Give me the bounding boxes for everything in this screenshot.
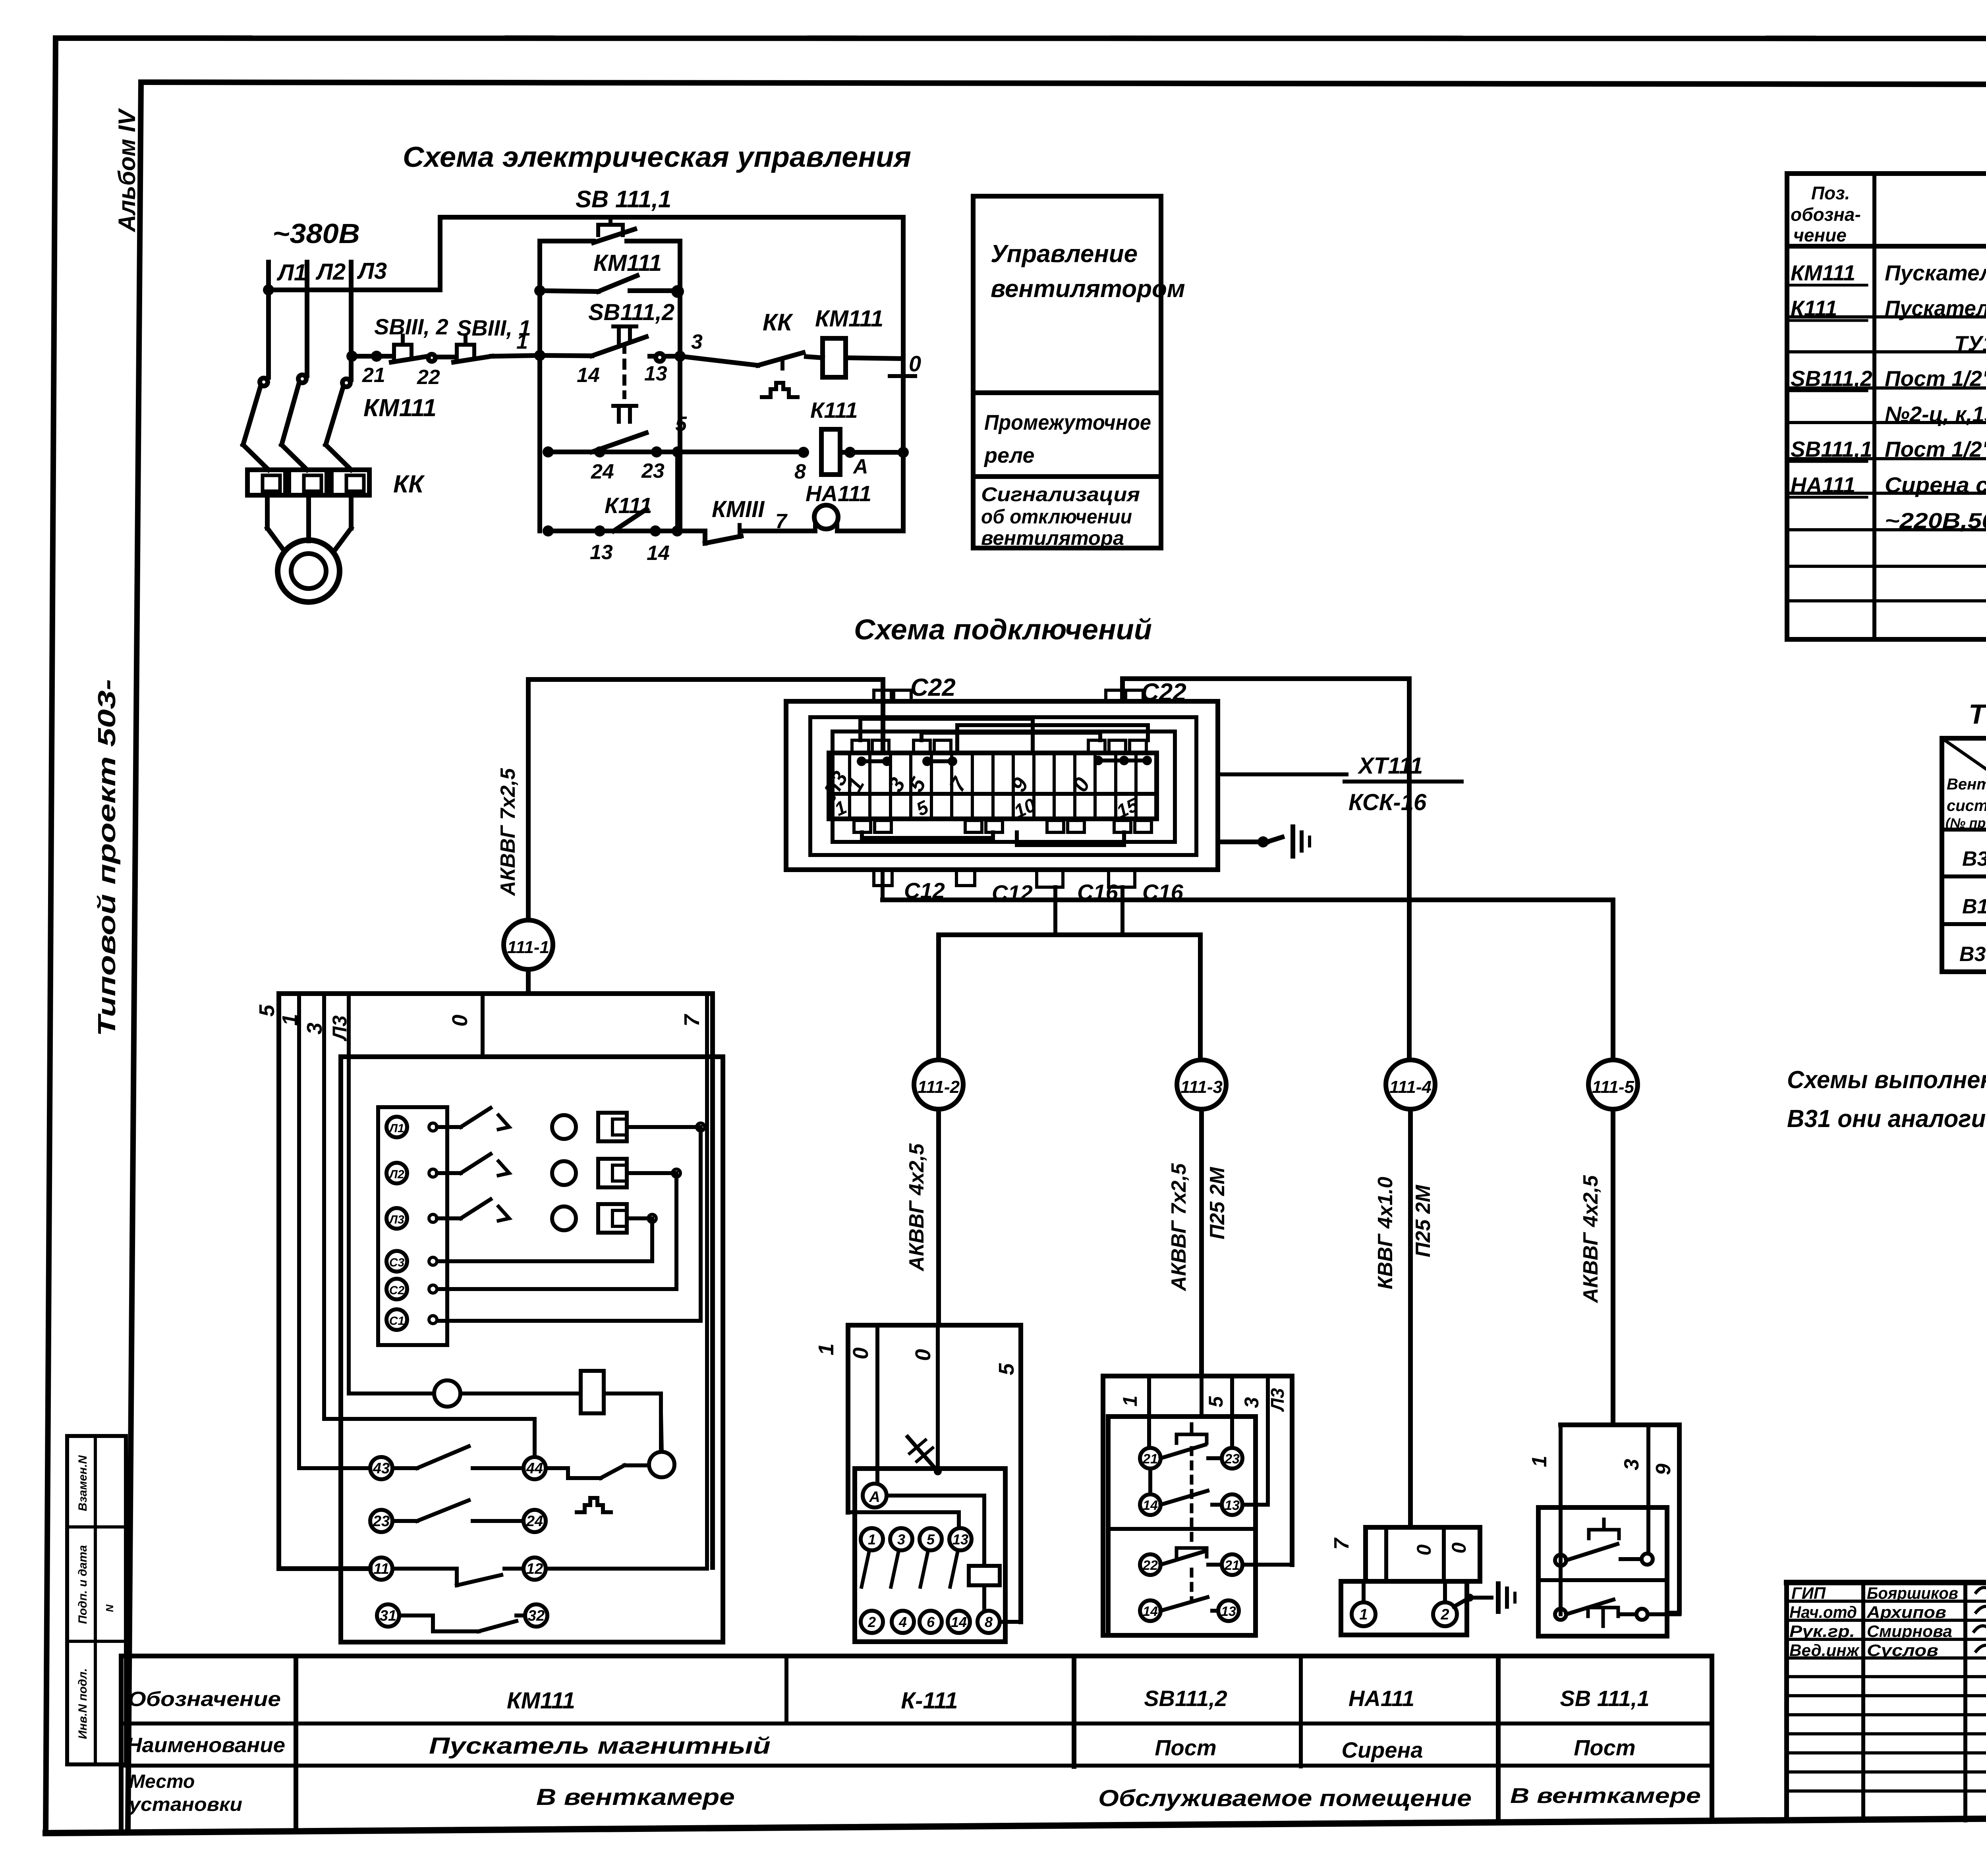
svg-text:АКВВГ 4х2,5: АКВВГ 4х2,5 — [1579, 1175, 1602, 1303]
KM111 wire rail 3 to node 44 — [324, 994, 535, 1456]
svg-text:2: 2 — [1440, 1606, 1449, 1623]
svg-text:ХТ111: ХТ111 — [1357, 753, 1423, 779]
svg-text:0: 0 — [911, 1349, 935, 1361]
terminal box case 3 — [833, 731, 1175, 842]
svg-text:Л2: Л2 — [315, 259, 346, 285]
ground at HA111 — [1454, 1584, 1515, 1612]
function description box — [973, 196, 1185, 549]
svg-text:Вед.инж: Вед.инж — [1789, 1641, 1860, 1660]
KM111 contact row 11-12 — [279, 994, 707, 1585]
svg-text:НА111: НА111 — [806, 481, 871, 506]
svg-text:Наименование: Наименование — [126, 1734, 285, 1757]
svg-text:№2-ц, к,1з+1р„Стоп", ТУ16-526,: №2-ц, к,1з+1р„Стоп", ТУ16-526,216-78 — [1885, 402, 1986, 427]
svg-text:С1: С1 — [389, 1314, 404, 1328]
control supply bus wire — [265, 217, 440, 293]
SB111,2 stop button contacts 22-21 — [1140, 1548, 1242, 1600]
svg-text:Взамен.N: Взамен.N — [76, 1455, 89, 1511]
svg-text:установки: установки — [128, 1794, 242, 1815]
SB111,1 rails — [1561, 1425, 1648, 1614]
svg-text:НА111: НА111 — [1791, 473, 1855, 497]
svg-text:АКВВГ 7х2,5: АКВВГ 7х2,5 — [496, 768, 520, 896]
svg-text:8: 8 — [794, 460, 806, 483]
svg-text:SВ111,2: SВ111,2 — [588, 299, 674, 325]
svg-text:вентилятора: вентилятора — [981, 527, 1124, 549]
K-111 no-connect contact — [908, 1325, 942, 1475]
svg-text:43: 43 — [373, 1460, 390, 1477]
ground symbol — [1218, 827, 1310, 856]
svg-text:SB 111,1: SB 111,1 — [576, 186, 671, 212]
svg-text:3: 3 — [1240, 1397, 1263, 1408]
svg-text:23: 23 — [641, 459, 665, 483]
K-111 relay element — [969, 1566, 1000, 1611]
magnetic starter KM111 enclosure — [255, 994, 723, 1642]
KM111 lamp and coil row — [349, 994, 661, 1452]
svg-text:22: 22 — [417, 366, 440, 389]
svg-text:21: 21 — [1224, 1558, 1240, 1573]
svg-text:14: 14 — [1143, 1498, 1158, 1513]
svg-text:КМ111: КМ111 — [363, 394, 437, 422]
contactor KM111 main contacts — [243, 375, 437, 470]
svg-text:Пускатель магнитный: Пускатель магнитный — [429, 1733, 771, 1759]
title block signature rows — [1789, 1584, 1986, 1660]
svg-text:Таблица длин кабелей: Таблица длин кабелей — [1969, 699, 1986, 730]
thermal relay KK heaters — [247, 470, 425, 498]
wire bottom to riser 111-5 — [883, 870, 1613, 900]
left stamp column — [67, 1436, 126, 1764]
svg-text:14: 14 — [1143, 1604, 1158, 1619]
KM111 internal terminal strip — [378, 1107, 447, 1345]
svg-text:13: 13 — [1221, 1604, 1236, 1619]
cable tail stubs under case — [874, 870, 1184, 905]
svg-text:П25 2М: П25 2М — [1206, 1166, 1229, 1239]
svg-text:В венткамере: В венткамере — [1510, 1784, 1701, 1808]
svg-text:Сигнализация: Сигнализация — [981, 483, 1140, 506]
svg-text:5: 5 — [675, 413, 687, 436]
svg-text:А: А — [852, 455, 868, 478]
wires to motor — [267, 495, 351, 551]
location row entries — [536, 1784, 1701, 1811]
SB111,2 contacts 14-13 lower — [1140, 1597, 1239, 1621]
svg-text:~380В: ~380В — [272, 218, 360, 249]
wire C22 right to riser 111-4 — [1122, 679, 1409, 701]
svg-text:К111: К111 — [605, 493, 652, 518]
motor M — [278, 540, 340, 602]
svg-text:Бояршиков: Бояршиков — [1867, 1584, 1958, 1602]
svg-text:КК: КК — [393, 471, 425, 498]
push-button SB111,1 (on top rail) — [576, 186, 671, 235]
cable circle 111-3 — [1167, 935, 1229, 1376]
svg-text:13: 13 — [590, 541, 613, 564]
svg-text:7: 7 — [680, 1013, 704, 1027]
svg-text:А: А — [869, 1489, 880, 1505]
svg-text:4: 4 — [898, 1614, 907, 1630]
svg-text:23: 23 — [373, 1513, 390, 1530]
svg-text:5: 5 — [1205, 1396, 1227, 1407]
svg-text:SB111,2: SB111,2 — [1144, 1686, 1227, 1711]
svg-text:Л3: Л3 — [1267, 1388, 1288, 1412]
svg-text:Л2: Л2 — [388, 1168, 404, 1181]
svg-text:3: 3 — [691, 330, 703, 353]
svg-text:5: 5 — [927, 1531, 935, 1548]
junction bar to risers 111-2 111-3 — [939, 887, 1200, 935]
svg-text:Нач.отд: Нач.отд — [1789, 1603, 1857, 1621]
siren HA111 enclosure — [1330, 1527, 1480, 1635]
svg-text:КМ111: КМ111 — [507, 1688, 575, 1714]
svg-text:31: 31 — [380, 1608, 396, 1624]
svg-text:АКВВГ 7х2,5: АКВВГ 7х2,5 — [1167, 1163, 1190, 1291]
svg-text:Л1: Л1 — [276, 260, 307, 286]
svg-text:Подп. и дата: Подп. и дата — [76, 1545, 89, 1624]
svg-text:В3 (111): В3 (111) — [1962, 847, 1986, 870]
bottom table row labels — [126, 1688, 285, 1815]
svg-text:9: 9 — [1652, 1463, 1675, 1475]
svg-text:чение: чение — [1793, 225, 1847, 245]
svg-text:5: 5 — [995, 1363, 1018, 1375]
svg-text:(№ привода): (№ привода) — [1945, 816, 1986, 831]
relay contact K111 row (24-23) — [543, 406, 687, 483]
svg-text:Пост 1/2", ПКЕ212-2У3; №1-ц, ч: Пост 1/2", ПКЕ212-2У3; №1-ц, ч.23„Пуск", — [1885, 366, 1986, 391]
svg-text:обозна-: обозна- — [1791, 204, 1861, 225]
svg-text:~220В,50Гц; ТУ16-539,187-77: ~220В,50Гц; ТУ16-539,187-77 — [1885, 508, 1986, 533]
svg-text:К111: К111 — [810, 398, 858, 423]
svg-text:Пост 1/2", ПКЕ712-2У3, ТУ16-52: Пост 1/2", ПКЕ712-2У3, ТУ16-526,216-78 — [1885, 437, 1986, 461]
svg-text:Пост: Пост — [1155, 1735, 1216, 1760]
svg-text:6: 6 — [927, 1614, 935, 1630]
svg-text:14: 14 — [577, 364, 600, 387]
bottom border line — [46, 1814, 1986, 1833]
push-button SB111,2 stop contact (21-22) — [362, 314, 448, 389]
svg-text:111-5: 111-5 — [1592, 1077, 1634, 1097]
terminal jumpers — [857, 756, 1152, 766]
svg-text:21: 21 — [1142, 1451, 1158, 1467]
svg-text:21: 21 — [362, 364, 385, 387]
svg-text:0: 0 — [849, 1347, 873, 1359]
svg-text:Архипов: Архипов — [1866, 1603, 1946, 1621]
HA111 terminals — [1352, 1527, 1457, 1626]
svg-text:14: 14 — [951, 1614, 967, 1630]
svg-text:5: 5 — [255, 1004, 279, 1017]
svg-text:Управление: Управление — [991, 240, 1138, 268]
wire: tap from L3 to control row — [346, 351, 391, 362]
intermediate relay coil K111 — [678, 398, 909, 483]
svg-text:Сирена: Сирена — [1342, 1737, 1423, 1762]
svg-text:КМ111: КМ111 — [815, 306, 883, 332]
svg-text:КК: КК — [763, 309, 794, 336]
svg-text:Смирнова: Смирнова — [1867, 1622, 1952, 1641]
cable circle 111-5 — [1579, 900, 1638, 1425]
phase wire L1 — [266, 262, 271, 377]
terminal box case 2 — [810, 717, 1196, 855]
svg-text:КВВГ 4х1.0: КВВГ 4х1.0 — [1374, 1177, 1397, 1289]
svg-text:3: 3 — [897, 1531, 905, 1548]
svg-text:С2: С2 — [389, 1284, 405, 1297]
svg-text:КМ111: КМ111 — [593, 250, 662, 276]
svg-text:С3: С3 — [389, 1256, 405, 1269]
svg-text:7: 7 — [1330, 1537, 1353, 1550]
svg-text:Схема подключений: Схема подключений — [854, 614, 1152, 646]
dashed mechanical link — [622, 345, 626, 397]
svg-text:КМIII: КМIII — [712, 496, 765, 522]
svg-text:111-2: 111-2 — [918, 1077, 960, 1097]
svg-text:1: 1 — [1119, 1395, 1141, 1407]
SB111,2 start button contacts 21-23 — [1140, 1424, 1242, 1545]
bottom designation table — [121, 1656, 1712, 1832]
svg-text:Л3: Л3 — [388, 1213, 404, 1226]
svg-text:П25 2М: П25 2М — [1412, 1184, 1435, 1257]
parts list table — [1787, 174, 1986, 639]
svg-text:Л1: Л1 — [388, 1122, 404, 1135]
svg-text:0: 0 — [1448, 1542, 1470, 1554]
svg-text:0: 0 — [448, 1015, 472, 1027]
svg-text:44: 44 — [526, 1460, 543, 1477]
svg-text:11: 11 — [373, 1561, 389, 1577]
svg-text:Вент-: Вент- — [1947, 776, 1986, 793]
svg-text:13: 13 — [952, 1531, 968, 1548]
SB111,1 lower contact — [1555, 1600, 1679, 1626]
cable circle 111-2 — [905, 935, 963, 1325]
SB111,2 rails — [1149, 1376, 1292, 1565]
svg-text:111-4: 111-4 — [1389, 1077, 1432, 1097]
svg-text:К-111: К-111 — [901, 1688, 958, 1714]
svg-text:13: 13 — [644, 362, 667, 385]
svg-text:В16 (127): В16 (127) — [1962, 895, 1986, 918]
svg-text:Инв.N подл.: Инв.N подл. — [76, 1668, 89, 1739]
name row entries — [429, 1733, 1636, 1762]
thermal contact KK (break) — [680, 309, 823, 397]
svg-text:Обслуживаемое помещение: Обслуживаемое помещение — [1098, 1785, 1472, 1811]
svg-text:ТУ16-526,437-78: ТУ16-526,437-78 — [1954, 331, 1986, 356]
svg-text:13: 13 — [1225, 1498, 1240, 1513]
svg-text:Поз.: Поз. — [1811, 183, 1850, 203]
starter K-111 enclosure — [814, 1325, 1021, 1642]
svg-text:0: 0 — [1413, 1544, 1435, 1556]
cable length table — [1942, 738, 1986, 972]
parts rows text — [1791, 261, 1986, 533]
wire from 111-1 riser to terminal block — [528, 679, 883, 920]
svg-text:7: 7 — [775, 510, 788, 533]
svg-text:SВIII, 2: SВIII, 2 — [374, 314, 448, 339]
svg-text:22: 22 — [1142, 1558, 1158, 1573]
K-111 terminals row 1-3-5-13 — [861, 1528, 972, 1587]
designation row entries — [507, 1686, 1650, 1714]
svg-text:1: 1 — [1359, 1606, 1368, 1623]
contact KM111 break (to siren) — [705, 496, 815, 543]
svg-text:SB111,2: SB111,2 — [1791, 366, 1872, 391]
svg-text:111-3: 111-3 — [1180, 1077, 1223, 1097]
svg-text:КСК-16: КСК-16 — [1348, 789, 1427, 815]
svg-text:24: 24 — [526, 1513, 543, 1530]
svg-text:8: 8 — [985, 1614, 993, 1630]
svg-text:14: 14 — [647, 542, 670, 565]
push-button post SB111,2 enclosure — [1103, 1376, 1292, 1635]
svg-text:1: 1 — [516, 330, 528, 353]
connector stubs above strip — [852, 740, 1146, 753]
connector stubs below strip — [854, 820, 1151, 845]
svg-text:Схема электрическая управления: Схема электрическая управления — [403, 141, 911, 173]
svg-text:SB 111,1: SB 111,1 — [1560, 1686, 1649, 1711]
KM111 contact row 31-32 — [377, 1604, 547, 1631]
terminal box outer case — [786, 701, 1218, 870]
svg-text:Промежуточное: Промежуточное — [984, 411, 1151, 434]
right rail wire with 0 terminal — [890, 217, 921, 531]
svg-text:0: 0 — [909, 351, 921, 376]
K-111 terminal A — [863, 1325, 984, 1566]
svg-text:12: 12 — [526, 1561, 543, 1577]
note text — [1787, 1066, 1986, 1133]
svg-text:N: N — [104, 1604, 116, 1612]
title block frame — [1787, 1583, 1986, 1820]
middle box verticals and top wire — [540, 229, 680, 531]
SB111,1 upper contact — [1555, 1519, 1653, 1566]
svg-text:Место: Место — [129, 1771, 195, 1792]
svg-text:К111: К111 — [1791, 296, 1837, 320]
svg-text:Пускатель магнитный ПМЛ111002В: Пускатель магнитный ПМЛ111002В,~220В — [1885, 296, 1986, 320]
svg-text:111-1: 111-1 — [507, 938, 549, 957]
KM111 phase rows with contacts, lamps, fuses — [437, 1108, 705, 1321]
svg-text:В31 (166): В31 (166) — [1959, 943, 1986, 966]
KM111 contact row 43-44 — [299, 994, 649, 1512]
svg-text:вентилятором: вентилятором — [991, 275, 1185, 303]
terminal strip XT111 — [818, 753, 1157, 822]
svg-text:24: 24 — [591, 460, 614, 483]
svg-text:Обозначение: Обозначение — [128, 1688, 281, 1711]
phase wire L3 — [349, 262, 354, 380]
svg-text:ГИП: ГИП — [1791, 1584, 1826, 1602]
svg-text:Пускатель магнитный: Пускатель магнитный — [1885, 261, 1986, 285]
svg-text:Пост: Пост — [1574, 1735, 1635, 1760]
KM111 auxiliary holding contact — [534, 250, 682, 296]
svg-text:SB111,1: SB111,1 — [1791, 437, 1872, 461]
svg-text:Рук.гр.: Рук.гр. — [1789, 1622, 1855, 1641]
cable circle 111-1 — [496, 768, 553, 994]
link wire 5 node — [675, 452, 680, 531]
svg-text:1: 1 — [1528, 1456, 1551, 1467]
svg-text:Типовой проект 503-: Типовой проект 503- — [93, 679, 121, 1036]
KM111 contact row 23-24 — [370, 1500, 546, 1532]
svg-text:Схемы выполнены для вентсистем: Схемы выполнены для вентсистемы В3, для … — [1787, 1066, 1986, 1094]
contact SB111,2 start (14-13) on main row — [534, 299, 703, 387]
svg-text:система: система — [1947, 797, 1986, 814]
svg-text:реле: реле — [983, 444, 1035, 467]
svg-text:Л3: Л3 — [357, 258, 387, 284]
svg-text:НА111: НА111 — [1348, 1686, 1414, 1711]
svg-text:Альбом IV: Альбом IV — [114, 108, 140, 233]
internal jumper wires — [860, 719, 1148, 753]
svg-text:1: 1 — [868, 1531, 876, 1548]
svg-text:об отключении: об отключении — [981, 506, 1132, 528]
top rail wire (to SB111,1) — [442, 215, 903, 220]
svg-text:АКВВГ 4х2,5: АКВВГ 4х2,5 — [905, 1143, 928, 1272]
svg-text:3: 3 — [1620, 1459, 1643, 1470]
svg-text:23: 23 — [1224, 1451, 1240, 1467]
K-111 terminals row 2-4-6-14-8 — [861, 1611, 1021, 1633]
svg-text:Суслов: Суслов — [1867, 1641, 1938, 1660]
push-button post SB111,1 enclosure — [1528, 1425, 1679, 1636]
KM111 bell — [649, 1413, 674, 1477]
svg-text:Сирена сигнальная ВСС-4м1ухл1: Сирена сигнальная ВСС-4м1ухл1Ехd1 — [1885, 473, 1986, 497]
callout XT111 / KCK-16 — [1218, 753, 1462, 815]
siren HA111 — [806, 481, 903, 531]
contactor coil KM111 — [815, 306, 903, 377]
svg-text:С22: С22 — [910, 674, 956, 701]
siren row contact K111 (13-14) — [543, 493, 705, 565]
svg-text:В31 они аналогичны.: В31 они аналогичны. — [1787, 1105, 1986, 1133]
svg-text:С22: С22 — [1141, 679, 1186, 706]
svg-text:1: 1 — [814, 1343, 838, 1355]
push-button SB111,1 contact — [435, 315, 540, 362]
SB111,2 contacts 14-13 — [1140, 1469, 1242, 1515]
svg-text:32: 32 — [528, 1608, 545, 1624]
K-111 rail 1 to node 13 — [848, 1512, 959, 1528]
svg-text:В венткамере: В венткамере — [536, 1784, 735, 1810]
svg-text:2: 2 — [867, 1614, 876, 1630]
phase wire L2 — [305, 262, 309, 376]
cable circle 111-4 — [1374, 679, 1435, 1527]
svg-text:КМ111: КМ111 — [1791, 261, 1855, 285]
C22 connector stubs on case top — [874, 674, 1186, 706]
